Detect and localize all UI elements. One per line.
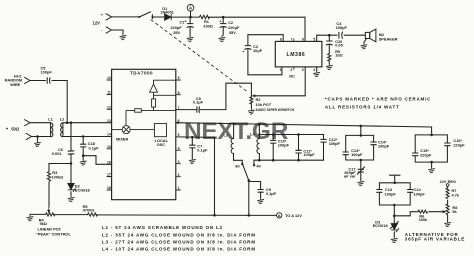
inductor L4 leads bbox=[258, 135, 260, 161]
svg-text:35V: 35V bbox=[173, 30, 180, 35]
capacitor C11 plates bbox=[295, 150, 301, 153]
svg-text:100pF: 100pF bbox=[41, 69, 53, 74]
wire C3 loop bbox=[248, 35, 283, 75]
svg-text:ECG618: ECG618 bbox=[373, 223, 389, 228]
svg-text:10Ω: 10Ω bbox=[335, 53, 342, 58]
svg-text:6: 6 bbox=[302, 38, 304, 42]
TDA7000 U1 box bbox=[112, 69, 176, 199]
wire C18 node to pin16 bbox=[83, 156, 111, 165]
LM386 U2 box bbox=[275, 41, 322, 67]
inductor L4 bumps bbox=[257, 139, 260, 154]
alt capacitor C14b plates bbox=[407, 190, 413, 193]
svg-text:50Ω: 50Ω bbox=[11, 127, 20, 132]
alt capacitor C13b plates bbox=[376, 190, 382, 193]
capacitor C3 plates bbox=[244, 46, 251, 50]
variable capacitor C17 bbox=[357, 167, 365, 175]
svg-text:L1 - 5T 24 AWG SCRAMBLE WOUND: L1 - 5T 24 AWG SCRAMBLE WOUND ON L2 bbox=[102, 225, 223, 230]
svg-text:2: 2 bbox=[178, 173, 180, 177]
wire HI-Z antenna to C5 bbox=[30, 81, 67, 123]
capacitor C7 plates bbox=[189, 145, 195, 148]
svg-text:air var: air var bbox=[344, 174, 356, 179]
node A stem bbox=[190, 11, 192, 17]
pot wiper arrow R4 bbox=[48, 207, 50, 213]
inductor L2 body line bbox=[62, 123, 64, 137]
svg-text:L2 - 35T 24 AWG CLOSE WOUND ON: L2 - 35T 24 AWG CLOSE WOUND ON 3/8 in. D… bbox=[102, 233, 256, 238]
dashed link switch to R2 bbox=[151, 20, 247, 92]
svg-text:3: 3 bbox=[302, 68, 304, 72]
svg-text:12: 12 bbox=[107, 106, 111, 110]
wire LM386 pin4 ground stub bbox=[316, 67, 318, 70]
C15 C16 loop bbox=[415, 135, 447, 162]
svg-text:SPEAKER: SPEAKER bbox=[379, 36, 398, 41]
capacitor C15 plates bbox=[412, 153, 418, 156]
svg-text:7: 7 bbox=[291, 38, 293, 42]
terminal circle 12V REG bbox=[446, 184, 449, 187]
svg-text:5: 5 bbox=[178, 133, 180, 137]
svg-text:10: 10 bbox=[107, 76, 111, 80]
node A circle bbox=[187, 5, 194, 12]
wire zobel branch bbox=[328, 35, 330, 63]
switch pole wire bbox=[248, 181, 250, 216]
svg-text:100kΩ: 100kΩ bbox=[52, 174, 64, 179]
svg-text:35V: 35V bbox=[229, 30, 236, 35]
resistor R3 leads bbox=[48, 164, 50, 207]
inductor L3 bumps bbox=[231, 139, 234, 154]
svg-text:L4 - 10T 24 AWG CLOSE WOUND ON: L4 - 10T 24 AWG CLOSE WOUND ON 3/8 in. D… bbox=[102, 247, 256, 252]
grounds bbox=[120, 33, 127, 40]
svg-text:17: 17 bbox=[107, 173, 111, 177]
U1 mixer left line bbox=[112, 129, 123, 131]
speaker ground stub bbox=[364, 39, 367, 43]
capacitor C13 plates bbox=[343, 152, 349, 155]
svg-text:100pF: 100pF bbox=[378, 144, 390, 149]
capacitor C11 leads bbox=[298, 135, 300, 161]
svg-text:7: 7 bbox=[178, 106, 180, 110]
potentiometer R2 body bbox=[250, 83, 252, 108]
pot wiper arrow R8 bbox=[443, 211, 445, 213]
wire D1 to C2 node bbox=[172, 16, 200, 18]
ground stub C18 bbox=[82, 156, 84, 159]
resistor R2 zigzag bbox=[250, 97, 253, 104]
wire C9 branch bbox=[249, 182, 261, 198]
mixer symbol bbox=[122, 126, 130, 134]
svg-text:100pF: 100pF bbox=[351, 152, 363, 157]
inductor L2 bumps bbox=[61, 123, 63, 137]
wire R6 to R8 wiper bbox=[429, 211, 445, 213]
svg-text:100μF: 100μF bbox=[336, 25, 348, 30]
wire 50ohm top bbox=[30, 122, 51, 124]
svg-text:TDA7000: TDA7000 bbox=[130, 70, 153, 75]
svg-text:2: 2 bbox=[290, 68, 292, 72]
capacitor C10 leads bbox=[272, 135, 274, 161]
R7 R8 column bbox=[447, 186, 449, 220]
svg-text:220pF: 220pF bbox=[453, 143, 465, 148]
svg-text:100k: 100k bbox=[419, 217, 428, 222]
svg-text:16: 16 bbox=[107, 161, 111, 165]
terminal arrow 50ohm bottom bbox=[26, 133, 32, 140]
speaker SP1 bbox=[365, 29, 376, 42]
svg-text:12V: 12V bbox=[93, 20, 101, 25]
wire R3 top link bbox=[49, 163, 71, 165]
svg-text:AUDIO TAPER W/SWITCH: AUDIO TAPER W/SWITCH bbox=[256, 108, 295, 112]
svg-text:A: A bbox=[278, 213, 281, 218]
svg-text:220pF: 220pF bbox=[420, 152, 432, 157]
U1 pin stubs right bbox=[176, 80, 181, 190]
svg-text:1N4001: 1N4001 bbox=[160, 10, 174, 15]
resistor R8 zigzag bbox=[446, 204, 449, 215]
svg-text:LM386: LM386 bbox=[287, 52, 306, 58]
svg-text:8: 8 bbox=[178, 91, 180, 95]
capacitor C2 leads bbox=[222, 17, 224, 35]
svg-text:*CAPS MARKED * ARE NPO CERAMIC: *CAPS MARKED * ARE NPO CERAMIC bbox=[325, 96, 431, 101]
svg-text:ALL RESISTORS 1/4 WATT: ALL RESISTORS 1/4 WATT bbox=[325, 104, 400, 109]
capacitor C8 plates bbox=[197, 106, 200, 112]
resistor R7 zigzag bbox=[446, 188, 449, 199]
svg-text:0.1μF: 0.1μF bbox=[197, 148, 208, 153]
capacitor C18 leads bbox=[82, 137, 84, 156]
capacitor C2 plates bbox=[220, 24, 227, 28]
U1 pin numbers right bbox=[178, 76, 180, 190]
resistor R9 bbox=[328, 54, 331, 62]
terminal T alt tank bbox=[390, 175, 400, 183]
U1 pin stubs left bbox=[107, 80, 112, 190]
svg-text:TO A 12V: TO A 12V bbox=[285, 213, 302, 218]
svg-text:12V REG: 12V REG bbox=[440, 179, 456, 184]
terminal arrow 12V minus bbox=[106, 27, 112, 34]
svg-text:NC: NC bbox=[289, 74, 295, 79]
wire 12V plus lead bbox=[112, 16, 140, 18]
band switch arm bbox=[243, 165, 249, 180]
svg-text:OSC: OSC bbox=[157, 142, 166, 147]
local oscillator box bbox=[154, 124, 166, 137]
svg-text:4.7k: 4.7k bbox=[452, 193, 460, 198]
capacitor C16 plates bbox=[444, 143, 450, 146]
svg-text:40: 40 bbox=[256, 164, 260, 169]
inductor L3 leads bbox=[234, 124, 243, 164]
svg-text:0.001: 0.001 bbox=[52, 151, 63, 156]
terminal arrow 50ohm top bbox=[24, 119, 30, 126]
inductor L1 bumps bbox=[51, 123, 53, 137]
wire D3 node to R6 bbox=[394, 212, 418, 216]
svg-text:100pF: 100pF bbox=[414, 191, 426, 196]
svg-text:4: 4 bbox=[313, 68, 315, 72]
terminal arrow 12V plus bbox=[106, 14, 112, 21]
svg-text:80: 80 bbox=[235, 164, 239, 169]
ground stub 50ohm bbox=[37, 137, 39, 141]
U1 internal resistor bbox=[154, 92, 176, 99]
capacitor C10 plates bbox=[270, 140, 276, 143]
svg-text:0.1μF: 0.1μF bbox=[266, 191, 277, 196]
varactor diode D3 bbox=[390, 221, 399, 232]
capacitor C9 plates bbox=[258, 190, 264, 193]
capacitor C12 plates bbox=[320, 139, 326, 142]
svg-text:ECG618: ECG618 bbox=[75, 188, 91, 193]
resistor R4 zigzag bbox=[46, 213, 55, 216]
wire R1 to LM386 pin6 drop bbox=[209, 17, 305, 41]
wire LM386 pin5 to output bbox=[317, 35, 366, 41]
svg-text:0.05: 0.05 bbox=[335, 42, 343, 47]
svg-text:100pF: 100pF bbox=[278, 142, 290, 147]
C13 C14 tank loop bbox=[346, 126, 374, 160]
svg-text:10μF: 10μF bbox=[253, 48, 263, 53]
svg-text:10k POT: 10k POT bbox=[256, 102, 272, 107]
capacitor C7 leads bbox=[191, 137, 193, 157]
U1 mixer to local osc bbox=[130, 129, 154, 131]
wire LM386 pin3 to pot wiper bbox=[254, 67, 305, 96]
svg-text:100pF: 100pF bbox=[303, 152, 315, 157]
variable capacitor C17 leads bbox=[360, 160, 362, 179]
switch S1 bbox=[139, 12, 164, 19]
capacitor C14 plates bbox=[371, 142, 377, 145]
tank bottom bus bbox=[254, 160, 324, 164]
svg-text:0.1μF: 0.1μF bbox=[193, 99, 204, 104]
bottom 12V rail bbox=[30, 214, 276, 215]
svg-text:11: 11 bbox=[107, 91, 111, 95]
rail pin6 tank bbox=[176, 123, 432, 135]
resistor R5 zigzag bbox=[88, 213, 98, 216]
capacitor C20 plates bbox=[326, 41, 333, 45]
wire L2 top to pin13 bbox=[63, 122, 112, 124]
diode D1 bbox=[165, 14, 172, 20]
resistor R3 zigzag bbox=[47, 172, 50, 182]
svg-text:L3 - 27T 24 AWG CLOSE WOUND ON: L3 - 27T 24 AWG CLOSE WOUND ON 3/8 in. D… bbox=[102, 240, 256, 245]
capacitor C1 plates bbox=[187, 24, 194, 28]
svg-text:13: 13 bbox=[107, 119, 111, 123]
capacitor C18 plates bbox=[80, 144, 86, 147]
U1 internal mixer feed bbox=[126, 107, 176, 126]
svg-text:18: 18 bbox=[107, 186, 111, 190]
wire TDA7000 pin5 supply bbox=[176, 137, 215, 215]
wire TDA7000 pin7 to C8 bbox=[176, 109, 196, 111]
terminal arrow HI-Z bbox=[24, 77, 30, 84]
svg-text:4: 4 bbox=[178, 146, 180, 150]
svg-text:9: 9 bbox=[178, 76, 180, 80]
alt loop C13b C14b bbox=[379, 183, 410, 205]
capacitor C1 leads bbox=[189, 17, 191, 35]
wire 50ohm bottom bbox=[32, 136, 51, 138]
svg-text:365pF AIR VARIABLE: 365pF AIR VARIABLE bbox=[405, 237, 465, 242]
pot wiper arrow R2 bbox=[253, 95, 255, 97]
varactor diode D2 bbox=[68, 184, 76, 192]
svg-text:"PEAK" CONTROL: "PEAK" CONTROL bbox=[36, 232, 71, 237]
capacitor C6 plates bbox=[68, 151, 74, 154]
wire L2 tap to C6 D2 bbox=[70, 123, 72, 196]
svg-text:100pF: 100pF bbox=[329, 141, 341, 146]
resistor R6 zigzag bbox=[418, 210, 428, 213]
capacitor C5 plates bbox=[47, 77, 50, 83]
capacitor C12 leads bbox=[323, 135, 325, 161]
svg-text:1: 1 bbox=[280, 68, 282, 72]
capacitor C4 plates bbox=[339, 32, 343, 39]
inductor L1 body line bbox=[50, 123, 52, 137]
svg-text:14: 14 bbox=[107, 133, 111, 137]
U1 internal amp triangle bbox=[150, 80, 176, 92]
svg-text:WIRE: WIRE bbox=[10, 82, 21, 87]
svg-text:15: 15 bbox=[107, 145, 111, 149]
svg-text:MIXER: MIXER bbox=[116, 136, 129, 141]
svg-text:5: 5 bbox=[313, 38, 315, 42]
wire C8 to R2 top bbox=[200, 83, 251, 109]
wire L2 bottom to pin14 bbox=[63, 136, 112, 138]
svg-text:100Ω: 100Ω bbox=[203, 23, 213, 28]
svg-text:100pF: 100pF bbox=[385, 191, 397, 196]
svg-text:8: 8 bbox=[280, 38, 282, 42]
svg-text:0.1μF: 0.1μF bbox=[89, 146, 100, 151]
U2 pin stubs bbox=[293, 39, 295, 70]
ground stub C15 C16 bbox=[431, 162, 433, 166]
wire 12V minus lead bbox=[112, 30, 124, 33]
svg-text:1: 1 bbox=[178, 186, 180, 190]
resistor R1 bbox=[199, 15, 209, 18]
U1 pin numbers left bbox=[107, 76, 111, 190]
rail2 link and run bbox=[259, 124, 323, 134]
svg-text:3: 3 bbox=[178, 160, 180, 164]
node A2 circle bottom bbox=[277, 213, 282, 218]
svg-text:NEXT.GR: NEXT.GR bbox=[184, 118, 289, 145]
wire alt loop to D3 bbox=[393, 205, 395, 236]
svg-text:4700Ω: 4700Ω bbox=[83, 208, 95, 213]
U2 pin numbers bbox=[280, 38, 316, 73]
